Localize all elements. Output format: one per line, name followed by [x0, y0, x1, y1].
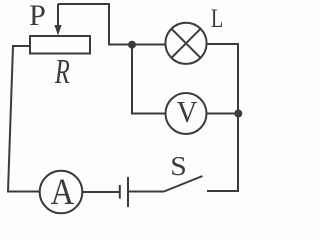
- svg-text:R: R: [54, 52, 70, 91]
- svg-text:L: L: [211, 5, 223, 34]
- svg-text:P: P: [29, 0, 46, 32]
- svg-text:A: A: [51, 172, 75, 212]
- svg-text:V: V: [177, 95, 198, 129]
- svg-text:S: S: [170, 152, 187, 181]
